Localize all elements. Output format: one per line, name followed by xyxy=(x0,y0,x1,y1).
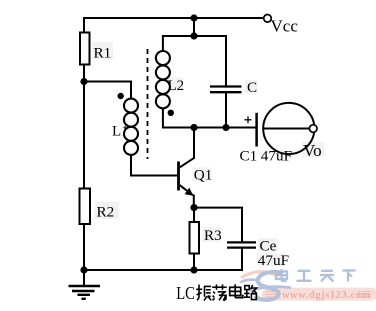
wire junction to L1 top xyxy=(84,82,131,100)
junction mid rail C xyxy=(222,124,229,131)
L1 polarity dot xyxy=(118,93,124,99)
wire L2 bottom to mid rail xyxy=(163,108,256,128)
wire tank top xyxy=(163,36,226,87)
svg-text:47uF: 47uF xyxy=(258,252,289,269)
junction on top rail xyxy=(190,14,197,21)
capacitor Ce xyxy=(227,237,289,269)
wire top rail to tank xyxy=(193,18,195,36)
wire emitter to R3 xyxy=(193,208,195,223)
watermark logo xyxy=(240,272,291,300)
svg-text:47uF: 47uF xyxy=(261,147,292,164)
inductor L2 xyxy=(156,51,170,108)
junction emitter node xyxy=(190,204,197,211)
ground xyxy=(69,286,101,299)
resistor R2 xyxy=(80,189,115,225)
title char 电 xyxy=(230,284,243,297)
wire Ce bottom xyxy=(84,248,242,270)
top rail wire xyxy=(84,17,264,19)
Vcc terminal xyxy=(264,14,299,35)
svg-text:www.dgjs123.com: www.dgjs123.com xyxy=(282,290,371,301)
title char 路 xyxy=(244,285,257,300)
svg-text:C1: C1 xyxy=(240,147,258,164)
Vo terminal xyxy=(303,125,322,160)
inductor L1 xyxy=(124,99,138,155)
junction below R1 xyxy=(80,78,87,85)
svg-text:Vcc: Vcc xyxy=(271,17,299,36)
L2 polarity dot xyxy=(168,110,174,116)
label C1 47uF xyxy=(240,147,293,164)
wire collector xyxy=(180,128,194,168)
left rail wire middle xyxy=(83,65,85,190)
wire R3 bottom xyxy=(193,254,195,271)
wire through output circle xyxy=(263,128,309,130)
junction ground node xyxy=(80,266,87,273)
svg-text:Vo: Vo xyxy=(303,141,322,160)
wire L1 bottom to Q1 base xyxy=(131,155,177,176)
wire C bottom xyxy=(225,92,227,127)
wire emitter node to Ce xyxy=(194,208,242,242)
svg-text:Q1: Q1 xyxy=(194,167,213,184)
resistor R3 xyxy=(190,222,222,254)
capacitor C1 plate xyxy=(255,113,258,147)
junction tank top xyxy=(190,32,197,39)
junction R3 bottom xyxy=(190,266,197,273)
resistor R1 xyxy=(80,33,111,65)
title char 荡 xyxy=(212,284,227,300)
svg-text:R1: R1 xyxy=(94,45,112,62)
watermark band www.dgjs123.com xyxy=(262,288,376,301)
svg-text:C: C xyxy=(247,79,257,96)
transformer core dashed line xyxy=(147,49,149,159)
output loop circle xyxy=(263,103,314,154)
junction mid rail collector xyxy=(190,124,197,131)
capacitor C xyxy=(210,79,257,96)
left rail wire upper xyxy=(83,17,85,34)
svg-text:LC: LC xyxy=(176,283,195,303)
wire emitter down xyxy=(193,195,195,209)
label background tints xyxy=(92,42,324,266)
capacitor C1 plus sign xyxy=(245,116,252,123)
svg-text:R2: R2 xyxy=(97,204,115,221)
transistor Q1 xyxy=(179,162,213,196)
watermark text 电工天下 xyxy=(276,269,356,282)
title char 振 xyxy=(196,285,211,301)
svg-text:R3: R3 xyxy=(204,227,222,244)
left rail wire lower xyxy=(83,224,85,286)
